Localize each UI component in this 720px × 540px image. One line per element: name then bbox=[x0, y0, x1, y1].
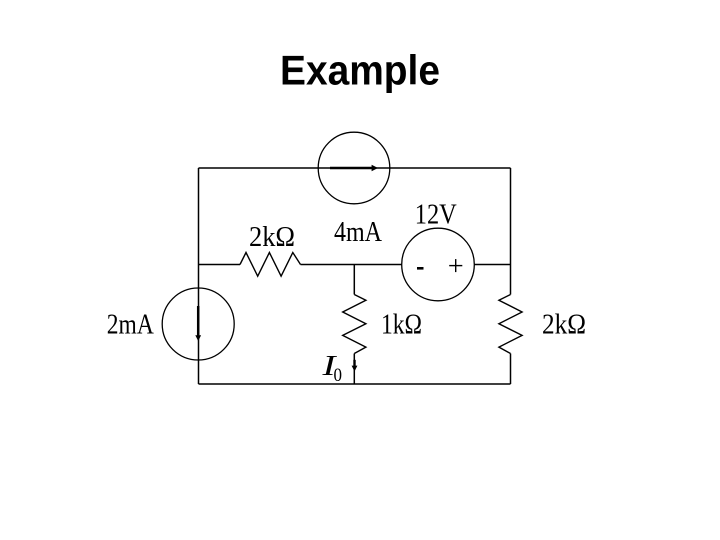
wire 1k branch lower stub bbox=[353, 354, 355, 385]
svg-text:Example: Example bbox=[280, 47, 440, 94]
current source 2mA arrow bbox=[197, 306, 200, 336]
current source 4mA (circle) bbox=[318, 132, 390, 204]
current I0 arrow on 1k branch bbox=[353, 360, 355, 366]
wire left vertical bbox=[198, 168, 200, 384]
svg-text:0: 0 bbox=[334, 365, 343, 386]
svg-text:1kΩ: 1kΩ bbox=[381, 309, 422, 341]
wire middle-right segment after 12V source bbox=[475, 264, 511, 266]
resistor 1k vertical bbox=[343, 295, 366, 354]
wire top (node A: top rail) bbox=[199, 167, 511, 169]
voltage source minus sign bbox=[417, 267, 424, 270]
voltage source plus sign bbox=[449, 265, 462, 267]
wire middle segment between resistor and 12V source bbox=[301, 264, 403, 266]
svg-text:2mA: 2mA bbox=[107, 309, 154, 341]
current source 4mA arrow bbox=[330, 167, 372, 170]
voltage source 12V (circle) bbox=[402, 228, 475, 301]
svg-text:2kΩ: 2kΩ bbox=[249, 221, 295, 253]
wire middle-left segment bbox=[199, 264, 241, 266]
wire right vertical upper bbox=[510, 168, 512, 295]
wire right vertical lower bbox=[510, 354, 512, 385]
svg-text:12V: 12V bbox=[415, 199, 457, 231]
wire bottom rail bbox=[199, 383, 511, 385]
svg-text:2kΩ: 2kΩ bbox=[542, 309, 586, 341]
current source 2mA (circle) bbox=[162, 288, 234, 360]
wire 1k branch upper stub bbox=[353, 265, 355, 295]
resistor 2k right vertical bbox=[499, 295, 522, 354]
svg-text:4mA: 4mA bbox=[334, 216, 382, 248]
resistor 2k horizontal bbox=[240, 253, 301, 277]
